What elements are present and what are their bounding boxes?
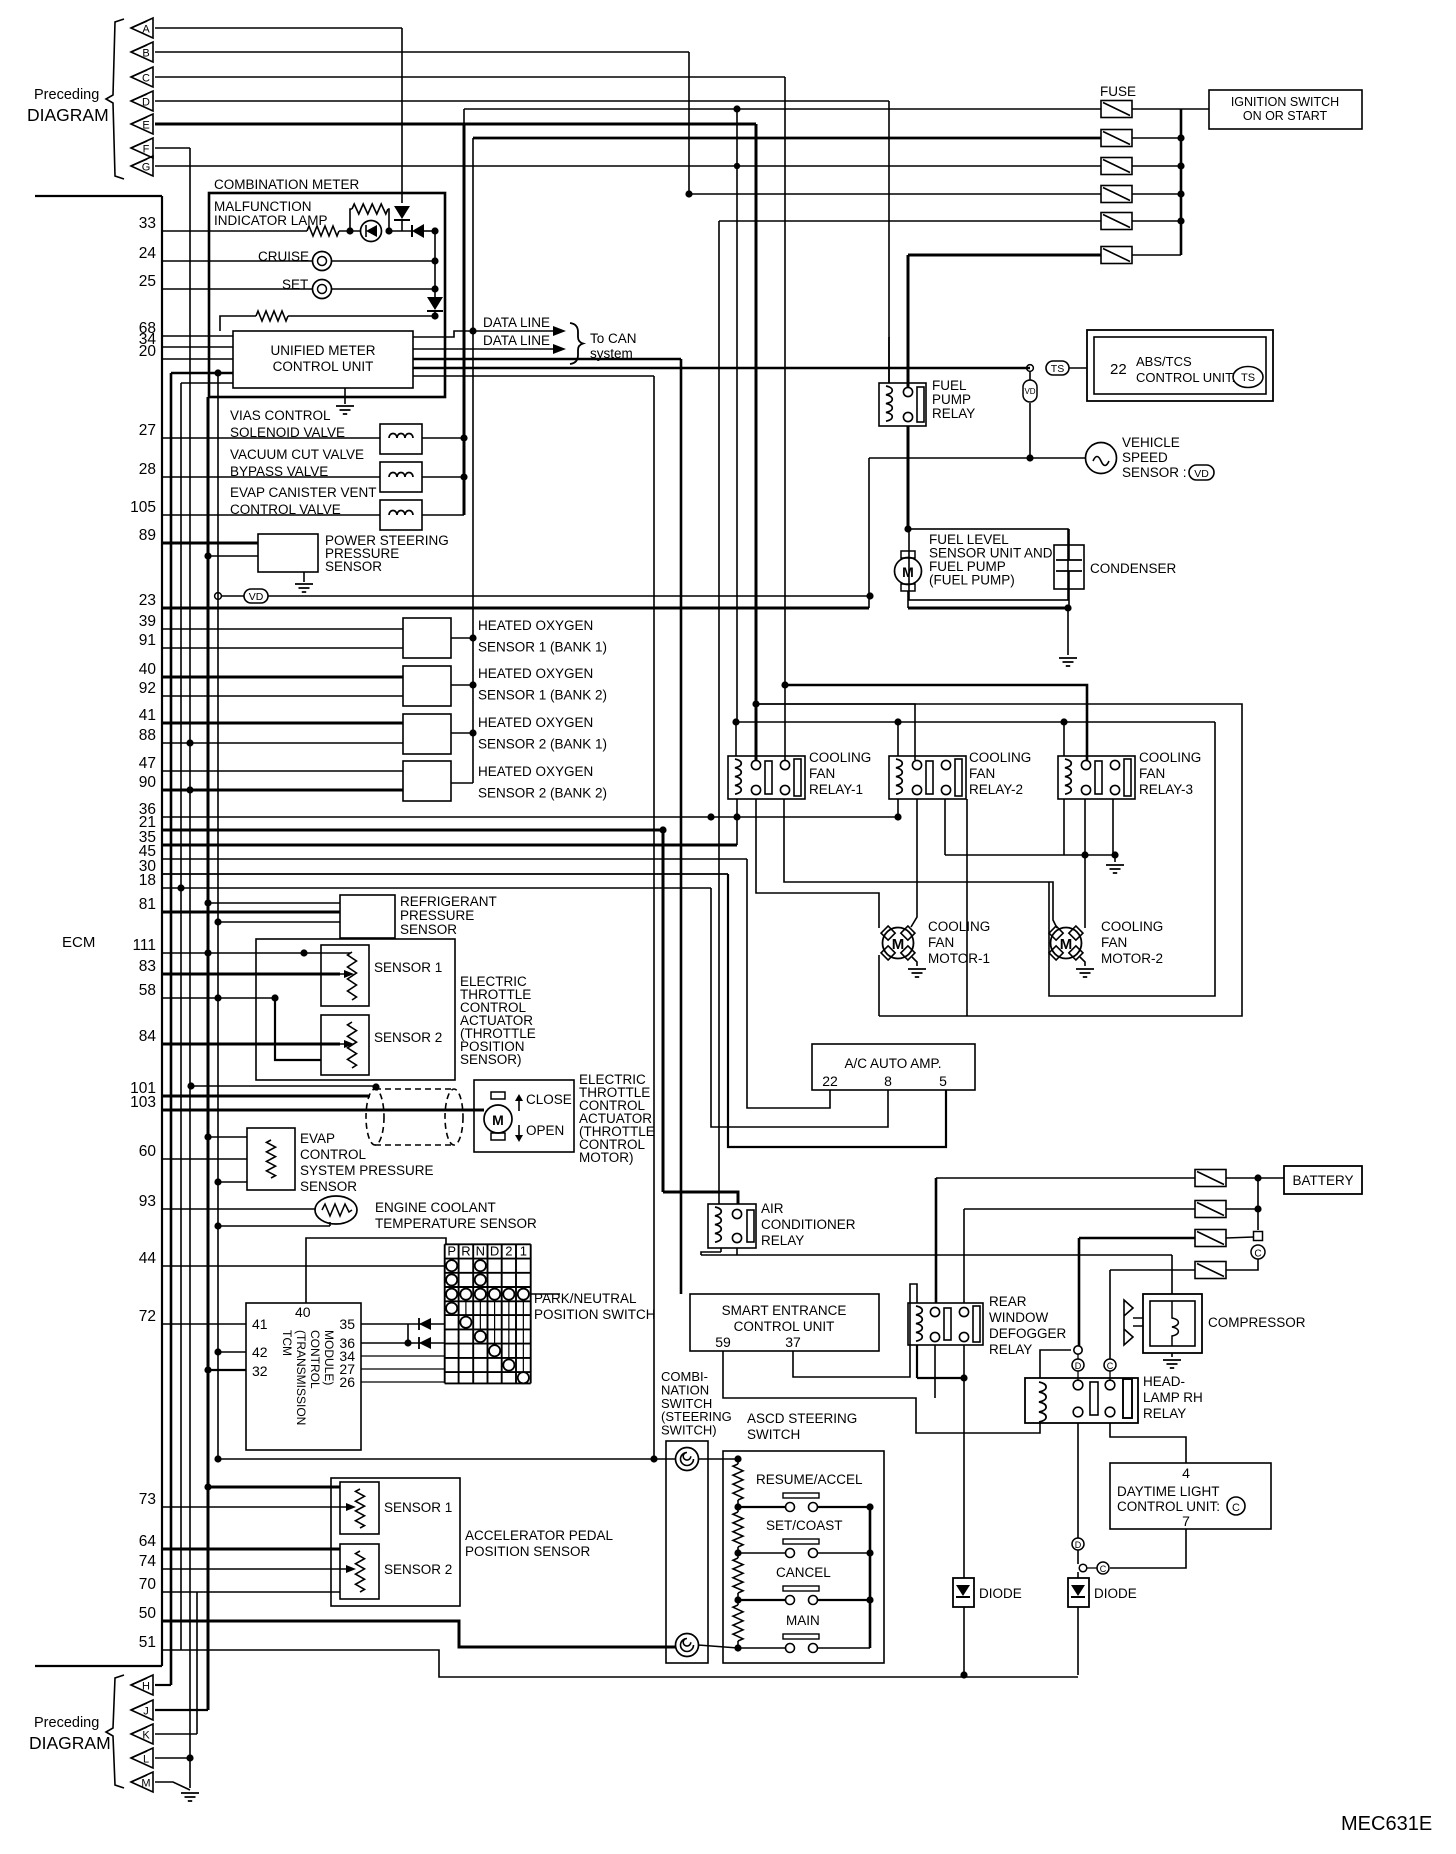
connector triangle B (preceding diagram) xyxy=(131,42,153,62)
svg-text:DATA LINE: DATA LINE xyxy=(483,315,550,330)
junction RPS / x218 bus xyxy=(214,918,221,925)
junction battery bus xyxy=(1254,1174,1261,1181)
svg-text:HEATED OXYGEN: HEATED OXYGEN xyxy=(478,666,593,681)
junction MIL parallel resistor left xyxy=(346,227,353,234)
wire resume row xyxy=(738,1506,785,1508)
wire bus x181 xyxy=(180,383,182,1650)
wire to battery fuse 2 xyxy=(964,1208,1195,1210)
wire pin 103 (bold) xyxy=(162,1109,484,1112)
resistor ASCD 2 xyxy=(733,1512,743,1547)
wire vertical x654 to ASCD feed xyxy=(653,376,655,1459)
wire E branch to relay-2 left contact xyxy=(756,704,915,760)
svg-text:33: 33 xyxy=(139,215,156,232)
wire cooling fan relay coil supply xyxy=(736,721,1215,723)
junction valve supply 1 xyxy=(460,434,467,441)
svg-text:41: 41 xyxy=(139,707,156,724)
svg-text:59: 59 xyxy=(715,1334,731,1350)
wire fuse5 vertical to air conditioner relay coil xyxy=(718,221,720,1204)
diode on TCM36 line xyxy=(419,1337,431,1349)
svg-text:(TRANSMISSION: (TRANSMISSION xyxy=(294,1330,308,1425)
svg-text:41: 41 xyxy=(252,1316,268,1332)
junction heater supply 2 xyxy=(469,681,476,688)
ignition switch box xyxy=(1209,90,1362,129)
APP sensor 1 box xyxy=(340,1482,379,1534)
fuse 3 xyxy=(1101,158,1132,175)
svg-text:OPEN: OPEN xyxy=(526,1123,564,1138)
wire EVAP sensor supply xyxy=(208,1136,247,1138)
condenser symbol xyxy=(1054,545,1084,589)
wire collector to ignition switch xyxy=(1181,108,1209,110)
wire pin 58 / sensor return xyxy=(162,997,275,999)
connector triangle C (preceding diagram) xyxy=(131,67,153,87)
svg-text:81: 81 xyxy=(139,896,156,913)
connector triangle E (preceding diagram) xyxy=(131,114,153,134)
junction pin88 / x190 bus xyxy=(186,739,193,746)
svg-text:B: B xyxy=(142,48,149,60)
svg-text:50: 50 xyxy=(139,1605,157,1622)
relay head-lamp RH xyxy=(1025,1378,1138,1423)
svg-text:2: 2 xyxy=(505,1244,512,1259)
wire VD tap xyxy=(221,595,244,597)
wire fuse 6 output xyxy=(1132,254,1181,256)
wire battery fuse 3 to headlamp relay (bold) xyxy=(1078,1238,1081,1346)
svg-text:SMART ENTRANCE: SMART ENTRANCE xyxy=(722,1303,847,1318)
svg-text:F: F xyxy=(143,144,150,156)
ground cooling fan relays xyxy=(1106,865,1124,873)
svg-text:C: C xyxy=(1107,1361,1114,1371)
wire DATA LINE 1 from UMCU xyxy=(413,331,473,337)
wiper arrow sensor2 xyxy=(336,1043,344,1045)
wire UMCU output to TS/ABS (bold) xyxy=(413,367,1030,370)
svg-text:51: 51 xyxy=(139,1634,156,1651)
svg-text:32: 32 xyxy=(252,1363,268,1379)
wire x218 to TCM 42 xyxy=(218,1351,246,1353)
refrigerant pressure sensor box xyxy=(340,895,395,938)
svg-text:DIAGRAM: DIAGRAM xyxy=(27,105,109,125)
wire D vertical drop to fuel pump relay coil xyxy=(888,101,890,383)
svg-text:PUMP: PUMP xyxy=(932,392,971,407)
wire to vehicle speed sensor xyxy=(869,457,1086,459)
wire vent valve to supply xyxy=(422,514,464,516)
PNP contact xyxy=(518,1372,529,1383)
svg-text:BATTERY: BATTERY xyxy=(1292,1173,1353,1188)
ground motor-2 xyxy=(1076,969,1094,977)
wire TCM 35 to PNP xyxy=(361,1323,445,1325)
PNP contact xyxy=(446,1260,457,1271)
ECM connector right edge xyxy=(161,196,163,1666)
wire SECU 37 to defogger relay coil xyxy=(793,1284,917,1377)
svg-text:24: 24 xyxy=(139,245,157,262)
wire pin 51 long run to diodes xyxy=(162,1650,1078,1677)
svg-text:SENSOR 2: SENSOR 2 xyxy=(384,1562,452,1577)
svg-text:R: R xyxy=(461,1244,470,1259)
svg-text:LAMP RH: LAMP RH xyxy=(1143,1390,1203,1405)
svg-text:74: 74 xyxy=(139,1553,157,1570)
wire pin 30 xyxy=(162,873,728,875)
svg-text:7: 7 xyxy=(1182,1513,1190,1529)
wire pin 64 (bold) xyxy=(162,1548,340,1551)
junction ground bus xyxy=(1111,851,1118,858)
PNP contact xyxy=(446,1289,457,1300)
svg-text:A: A xyxy=(142,24,150,36)
resistor EVAP sensor xyxy=(267,1140,276,1178)
wire vertical x473 HO2S heater supply xyxy=(472,138,474,783)
svg-text:40: 40 xyxy=(295,1304,311,1320)
wire bold vertical x681 to smart entrance unit xyxy=(680,359,683,1294)
wire RPS ground xyxy=(218,921,340,923)
throttle position sensor 2 box xyxy=(321,1015,369,1075)
wire pin 24 to cruise lamp xyxy=(162,260,312,262)
svg-text:SENSOR 2 (BANK 1): SENSOR 2 (BANK 1) xyxy=(478,737,607,752)
wire main row right xyxy=(818,1647,870,1649)
daytime light control unit box xyxy=(1110,1463,1271,1529)
svg-text:DEFOGGER: DEFOGGER xyxy=(989,1326,1067,1341)
svg-text:J: J xyxy=(143,1706,149,1718)
svg-text:MODULE): MODULE) xyxy=(322,1330,336,1385)
svg-text:MOTOR-2: MOTOR-2 xyxy=(1101,951,1163,966)
svg-text:D: D xyxy=(142,97,150,109)
wire bold x663 down to A/C relay xyxy=(662,830,665,1192)
svg-text:39: 39 xyxy=(139,613,156,630)
svg-text:RELAY-2: RELAY-2 xyxy=(969,782,1023,797)
svg-text:K: K xyxy=(142,1730,150,1742)
junction L / x190 bus xyxy=(186,1754,193,1761)
wire connector K stub xyxy=(155,1733,197,1735)
svg-text:COMBINATION METER: COMBINATION METER xyxy=(214,177,360,192)
resistor ASCD 4 xyxy=(733,1605,743,1641)
svg-text:COOLING: COOLING xyxy=(1139,750,1201,765)
svg-text:M: M xyxy=(902,564,914,580)
svg-text:89: 89 xyxy=(139,527,156,544)
wire relay-3 coil bottom xyxy=(1063,799,1065,855)
wire pin 34 to UMCU xyxy=(162,346,233,348)
wire pin 25 to set lamp xyxy=(162,288,312,290)
svg-text:HEATED OXYGEN: HEATED OXYGEN xyxy=(478,618,593,633)
wire PSP sensor ground lead xyxy=(303,572,305,582)
wire fuse 4 output xyxy=(1132,193,1181,195)
wire battery fuse to defogger contact (bold) xyxy=(935,1178,938,1303)
wire A/C contact bottom xyxy=(736,1248,738,1255)
wire F bus vertical to connector L xyxy=(189,148,191,1758)
svg-text:TS: TS xyxy=(1241,372,1255,384)
relay fuel pump (small) xyxy=(879,383,926,426)
wire spiral to ASCD resistors xyxy=(698,1458,738,1460)
compressor pulley symbol xyxy=(1124,1300,1133,1345)
wire fuse6 vertical to fuel pump relay contact (bold) xyxy=(907,255,910,388)
wire pin 90 (bold) xyxy=(162,789,403,792)
VD vertical capsule connector xyxy=(1023,380,1037,402)
wire fuel pump relay contact to fuel pump (bold) xyxy=(907,426,910,529)
junction / x218 xyxy=(214,994,221,1001)
svg-text:HEATED OXYGEN: HEATED OXYGEN xyxy=(478,764,593,779)
cruise indicator bulb xyxy=(313,252,332,271)
svg-text:C: C xyxy=(142,73,150,85)
heated oxygen sensor box 4 xyxy=(403,761,451,801)
wire pin 33 to MIL xyxy=(162,230,307,232)
wire defogger line to diode 1 xyxy=(963,1378,965,1578)
wire MIL to left diode xyxy=(389,230,412,232)
wire defogger coil bottom xyxy=(916,1345,918,1378)
PNP contact xyxy=(503,1289,514,1300)
wire pin 89 to PSP sensor (bold) xyxy=(162,542,258,545)
wire connector G run to fuse3 xyxy=(155,165,1101,167)
junction VD chain / VSS line xyxy=(1026,454,1033,461)
wire A/C coil to compressor line xyxy=(701,1252,721,1255)
park/neutral position switch grid xyxy=(444,1244,446,1383)
fuse 4 xyxy=(1101,186,1132,203)
svg-text:22: 22 xyxy=(1110,361,1127,378)
connector circle above headlamp relay xyxy=(1074,1346,1082,1354)
junction set row xyxy=(734,1549,741,1556)
svg-text:COOLING: COOLING xyxy=(969,750,1031,765)
wire VD line to speed sensor riser xyxy=(268,595,870,597)
wire fuse 2 output xyxy=(1132,137,1181,139)
svg-text:ECM: ECM xyxy=(62,934,95,951)
electric throttle control motor box xyxy=(474,1080,574,1152)
svg-text:HEAD-: HEAD- xyxy=(1143,1374,1185,1389)
wire HO2S2B1 heater xyxy=(451,732,473,734)
wire fuse 5 output xyxy=(1132,220,1181,222)
vehicle speed sensor symbol xyxy=(1086,443,1117,474)
svg-text:SENSOR 1: SENSOR 1 xyxy=(374,960,442,975)
wire fuse1 feed line xyxy=(464,108,1101,110)
wire to battery fuse 4 xyxy=(1110,1269,1195,1271)
junction x218 corner xyxy=(214,1455,221,1462)
junction condenser / ground xyxy=(1064,604,1071,611)
junction diode1 / pin51 line xyxy=(960,1671,967,1678)
svg-text:RELAY-3: RELAY-3 xyxy=(1139,782,1193,797)
wire HO2S1B1 heater xyxy=(451,637,473,639)
wire battery fuse to defogger contact 2 xyxy=(963,1209,965,1303)
svg-text:POSITION SENSOR: POSITION SENSOR xyxy=(465,1544,591,1559)
junction ASCD top xyxy=(734,1455,741,1462)
fuse 6 xyxy=(1101,247,1132,264)
svg-text:40: 40 xyxy=(139,661,157,678)
junction main row xyxy=(734,1644,741,1651)
connector circle at diode 2 xyxy=(1079,1564,1087,1572)
svg-text:88: 88 xyxy=(139,727,156,744)
junction collector y194 xyxy=(1177,190,1184,197)
wire x208 to APP sensor supply (bold) xyxy=(208,1486,340,1489)
junction valve supply 2 xyxy=(460,473,467,480)
dashed harness connector xyxy=(366,1089,384,1145)
junction pin21 / bold drop xyxy=(659,826,666,833)
relay cooling fan 3 xyxy=(1058,756,1135,799)
combination switch box xyxy=(666,1441,708,1663)
wire relay-2 left contact to motor-1 right xyxy=(911,799,917,927)
wire fuel pump return (bold) xyxy=(908,607,1068,610)
connector triangle L (preceding diagram) xyxy=(131,1748,153,1768)
junction UMCU feed / x218 xyxy=(214,369,221,376)
fuse 5 xyxy=(1101,213,1132,230)
VD oval symbol xyxy=(244,589,268,603)
svg-text:58: 58 xyxy=(139,982,156,999)
svg-text:C: C xyxy=(1232,1502,1240,1514)
wire to battery fuse 1 xyxy=(936,1177,1195,1179)
wire relay coil loop right side xyxy=(1049,722,1215,996)
wire to relay-3 coil top xyxy=(1063,722,1065,756)
wire pin 27 to VIAS valve xyxy=(162,437,380,439)
svg-text:D: D xyxy=(1075,1361,1082,1371)
resistor MIL series xyxy=(307,226,339,236)
wire vertical x737 fuse1 to cooling fan relay coils xyxy=(736,109,738,722)
junction pin90 / x190 bus xyxy=(186,786,193,793)
bracket top connectors xyxy=(106,19,124,179)
diode on TCM35 line xyxy=(419,1318,431,1330)
svg-text:IGNITION SWITCH: IGNITION SWITCH xyxy=(1231,95,1339,109)
wire TCM pin40 to PNP xyxy=(306,1238,446,1303)
svg-text:105: 105 xyxy=(130,499,156,516)
svg-text:ABS/TCS: ABS/TCS xyxy=(1136,354,1192,369)
wire pin 70 xyxy=(162,1591,340,1593)
junction collector y221 xyxy=(1177,217,1184,224)
svg-text:60: 60 xyxy=(139,1143,157,1160)
svg-text:DIAGRAM: DIAGRAM xyxy=(29,1733,111,1753)
svg-text:22: 22 xyxy=(822,1073,838,1089)
svg-text:SENSOR: SENSOR xyxy=(300,1179,357,1194)
junction right bus resume xyxy=(866,1503,873,1510)
svg-text:INDICATOR LAMP: INDICATOR LAMP xyxy=(214,213,328,228)
letter circle C xyxy=(1104,1359,1116,1371)
PNP contact xyxy=(446,1303,457,1314)
fuse battery 3 xyxy=(1195,1230,1226,1247)
wire battery bus vertical xyxy=(1257,1178,1259,1230)
wire DATA LINE 1 to arrow xyxy=(473,330,553,332)
wire bold bus x208 (meter box corner to connector J) xyxy=(207,397,210,1710)
connector triangle H (preceding diagram) xyxy=(131,1675,153,1695)
junction relay-3 coil xyxy=(1060,718,1067,725)
svg-text:VD: VD xyxy=(1194,468,1209,480)
cooling fan motor 2 xyxy=(1051,928,1082,959)
junction pin36 / relay-2 coil xyxy=(894,813,901,820)
wire pin 50 to main switch (bold) xyxy=(162,1621,676,1647)
wiper arrow APP1 xyxy=(341,1506,346,1508)
wire UMCU to resistor xyxy=(220,316,256,331)
wire x218 to combination switch xyxy=(218,1458,676,1460)
connector triangle G (preceding diagram) xyxy=(131,156,153,176)
wire compressor ground lead xyxy=(1171,1353,1173,1357)
wiper arrow APP2 xyxy=(341,1568,346,1570)
wire fuse 1 output xyxy=(1132,108,1181,110)
ground motor-1 xyxy=(908,969,926,977)
letter circle C battery xyxy=(1251,1245,1265,1259)
junction resume row xyxy=(734,1503,741,1510)
wire DATA LINE 2 from UMCU xyxy=(413,348,553,350)
wire connector F run xyxy=(155,147,190,149)
svg-text:MOTOR): MOTOR) xyxy=(579,1150,634,1165)
wire solenoid valve supply vertical (bold) xyxy=(463,124,466,515)
ECM box bottom edge xyxy=(35,1665,162,1667)
wire UMCU power feed (bold) xyxy=(171,372,233,375)
ground condenser/fuel pump xyxy=(1059,658,1077,666)
wire resume row right xyxy=(818,1506,870,1508)
junction at fuel level box top xyxy=(904,525,911,532)
svg-text:FUSE: FUSE xyxy=(1100,84,1136,99)
svg-text:ON OR START: ON OR START xyxy=(1243,109,1328,123)
spiral contact bottom xyxy=(676,1634,699,1657)
heated oxygen sensor box 3 xyxy=(403,714,451,754)
resistor APP sensor 2 xyxy=(356,1551,365,1592)
junction RPS / x208 bus xyxy=(204,899,211,906)
accelerator pedal position sensor outer box xyxy=(331,1478,460,1606)
junction x190 bus xyxy=(187,1082,194,1089)
A/C auto amp box xyxy=(812,1044,975,1090)
letter circle C on wire xyxy=(1097,1562,1109,1574)
svg-text:1: 1 xyxy=(520,1244,527,1259)
wire spiral bottom to main row xyxy=(698,1645,738,1648)
svg-text:SENSOR 1 (BANK 1): SENSOR 1 (BANK 1) xyxy=(478,640,607,655)
junction battery bus 2 xyxy=(1254,1205,1261,1212)
wire pin 83 to sensor1 wiper (bold) xyxy=(162,973,340,976)
wire A/C coil bottom xyxy=(720,1248,722,1252)
resistor ASCD 1 xyxy=(733,1464,743,1500)
connector triangle K (preceding diagram) xyxy=(131,1724,153,1744)
svg-text:RELAY: RELAY xyxy=(761,1233,804,1248)
junction relay-2 coil xyxy=(894,718,901,725)
wire pin 40 (bold) xyxy=(162,676,403,679)
wire to ground xyxy=(1067,608,1069,655)
throttle position sensor 1 box xyxy=(321,945,369,1006)
wire TCM 27 to PNP xyxy=(361,1368,445,1370)
wire pin 35 to relay-1 coil (bold) xyxy=(162,844,737,847)
junction / x218 xyxy=(214,1178,221,1185)
wire connector B run xyxy=(155,51,689,53)
wire C vertical drop to cooling fan relay-1 xyxy=(784,77,786,760)
PNP contact xyxy=(446,1274,457,1285)
wire bus x197 xyxy=(196,1592,198,1734)
connector triangle D (preceding diagram) xyxy=(131,91,153,111)
wire connector C run xyxy=(155,76,785,78)
resistor sensor 1 xyxy=(348,952,357,1000)
wire resistor to x435 xyxy=(288,315,435,317)
fuse battery 2 xyxy=(1195,1201,1226,1218)
svg-text:TS: TS xyxy=(1051,363,1064,375)
wire battery fuse 4 to headlamp relay xyxy=(1109,1270,1111,1359)
wire defogger to diode line xyxy=(917,1377,964,1379)
svg-text:SENSOR): SENSOR) xyxy=(460,1052,522,1067)
wire defogger contact bottom xyxy=(934,1345,936,1398)
wire ECT return xyxy=(218,1225,330,1227)
svg-text:COOLING: COOLING xyxy=(928,919,990,934)
junction collector y166 xyxy=(1177,162,1184,169)
ABS/TCS control unit box inner xyxy=(1094,337,1266,394)
junction fuse1 line / vertical x737 xyxy=(733,105,740,112)
svg-text:Preceding: Preceding xyxy=(34,87,99,103)
svg-text:47: 47 xyxy=(139,755,156,772)
TS oval in ABS box xyxy=(1233,367,1263,388)
TS oval symbol xyxy=(1046,361,1069,375)
PNP contact xyxy=(518,1289,529,1300)
PNP column drop wires xyxy=(465,1299,467,1317)
small square terminal xyxy=(1254,1232,1263,1241)
wire pin 28 to bypass valve xyxy=(162,476,380,478)
wire pin 91 xyxy=(162,647,403,649)
wire A/C relay to compressor xyxy=(701,1254,1172,1256)
junction relay-3 / ground bus xyxy=(1081,851,1088,858)
engine coolant temperature sensor symbol xyxy=(315,1196,357,1224)
ABS/TCS control unit box outer xyxy=(1087,330,1273,401)
wire TS tap to VD capsule xyxy=(1029,371,1031,380)
wire relay-2 right side down to bottom run xyxy=(966,799,968,1016)
svg-text:RELAY: RELAY xyxy=(932,406,975,421)
junction x435 / resistor line xyxy=(431,312,438,319)
heated oxygen sensor box 2 xyxy=(403,666,451,706)
junction diode link xyxy=(404,1339,411,1346)
resistor meter lower xyxy=(256,311,288,321)
OPEN arrow xyxy=(518,1125,520,1139)
ground compressor xyxy=(1163,1360,1181,1368)
wire diode 2 to pin 51 line xyxy=(1077,1607,1079,1675)
